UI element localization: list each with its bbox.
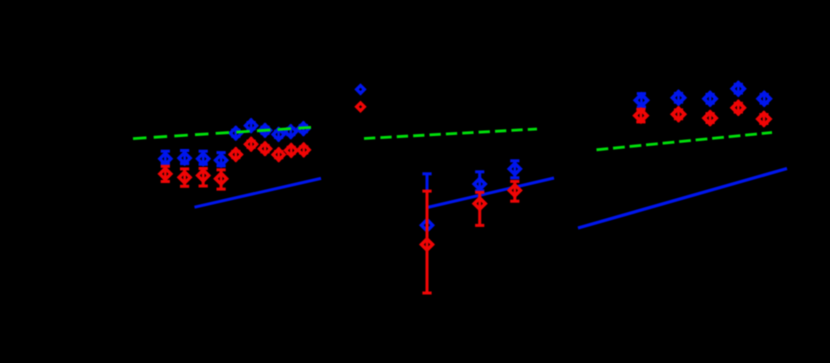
right blue point 2 diamond [673, 90, 685, 106]
left panel green dashed theory line [133, 127, 311, 138]
left upper red point 6 error bar [299, 147, 308, 153]
left lower red point 2 diamond [179, 170, 190, 184]
right blue point 5 error bar [760, 94, 769, 103]
left upper blue point 5 error bar [286, 129, 295, 135]
left upper blue point 6 diamond [298, 121, 309, 135]
left lower red point 4 error bar [217, 170, 226, 189]
middle red point 1 error bar [422, 191, 431, 293]
left upper red point 3 error bar [260, 146, 269, 152]
left lower blue point 4 error bar [217, 153, 226, 166]
left upper blue point 1 error bar [231, 130, 240, 136]
left upper red point 4 error bar [274, 152, 283, 158]
left lower red point 4 diamond [216, 172, 227, 186]
middle blue point 2 error bar [475, 172, 484, 191]
left lower red point 1 diamond [160, 167, 171, 181]
left lower red point 1 error bar [161, 166, 170, 181]
middle blue point 0 diamond [357, 86, 365, 94]
left upper red point 1 error bar [231, 151, 240, 157]
right red point 3 error bar [706, 114, 715, 123]
left lower blue point 3 error bar [199, 151, 208, 164]
left upper red point 1 diamond [230, 147, 241, 161]
right red point 4 error bar [734, 103, 743, 112]
right blue point 5 diamond [758, 91, 770, 107]
left lower red point 3 error bar [199, 169, 208, 187]
right panel green dashed theory line [597, 133, 773, 150]
right red point 2 error bar [674, 110, 683, 119]
left lower blue point 2 error bar [180, 151, 189, 164]
left upper red point 4 diamond [273, 147, 284, 161]
middle red point 3 error bar [510, 181, 519, 201]
middle red point 2 diamond [474, 196, 485, 211]
right red point 5 error bar [759, 115, 768, 124]
left upper red point 5 diamond [286, 143, 297, 157]
left upper red point 2 diamond [246, 137, 257, 151]
left upper red point 6 diamond [298, 143, 309, 157]
left upper blue point 5 diamond [285, 124, 296, 138]
right panel blue solid trend line [578, 169, 787, 229]
right blue point 4 diamond [732, 81, 744, 97]
middle red point 3 diamond [509, 183, 520, 198]
left upper blue point 3 error bar [260, 127, 269, 133]
left lower red point 3 diamond [198, 168, 209, 182]
middle blue point 1 error bar [422, 174, 431, 225]
middle panel green dashed theory line [364, 129, 537, 139]
middle blue point 2 diamond [474, 177, 485, 192]
left upper blue point 4 error bar [274, 131, 283, 137]
right blue point 3 error bar [706, 94, 715, 103]
left upper blue point 6 error bar [299, 126, 308, 132]
left lower blue point 4 diamond [216, 153, 227, 167]
left upper blue point 3 diamond [259, 123, 270, 137]
left upper blue point 4 diamond [273, 127, 284, 141]
right red point 1 diamond [635, 108, 647, 124]
left upper red point 3 diamond [259, 142, 270, 156]
right red point 1 error bar [636, 109, 645, 122]
middle blue point 3 diamond [509, 162, 520, 177]
right blue point 1 error bar [637, 94, 646, 107]
middle red point 1 diamond [421, 237, 432, 252]
left lower blue point 3 diamond [198, 152, 209, 166]
right red point 4 diamond [732, 100, 744, 116]
middle red point 0 diamond [357, 103, 365, 111]
left lower blue point 2 diamond [179, 151, 190, 165]
left lower blue point 1 error bar [161, 151, 170, 164]
right blue point 4 error bar [734, 84, 743, 93]
left upper red point 2 error bar [247, 141, 256, 147]
left upper red point 5 error bar [287, 147, 296, 153]
left upper blue point 2 error bar [247, 123, 256, 129]
middle red point 2 error bar [475, 192, 484, 225]
right red point 5 diamond [758, 111, 770, 127]
right red point 2 diamond [673, 107, 685, 123]
right blue point 3 diamond [704, 91, 716, 107]
middle panel blue solid trend line [427, 178, 554, 208]
middle blue point 1 diamond [421, 218, 432, 233]
left upper blue point 1 diamond [230, 126, 241, 140]
left lower blue point 1 diamond [160, 152, 171, 166]
left upper blue point 2 diamond [246, 118, 257, 132]
right blue point 1 diamond [635, 93, 647, 109]
middle blue point 3 error bar [510, 161, 519, 178]
left panel blue solid trend line [195, 178, 322, 207]
left lower red point 2 error bar [180, 169, 189, 186]
right red point 3 diamond [704, 110, 716, 126]
right blue point 2 error bar [674, 93, 683, 102]
